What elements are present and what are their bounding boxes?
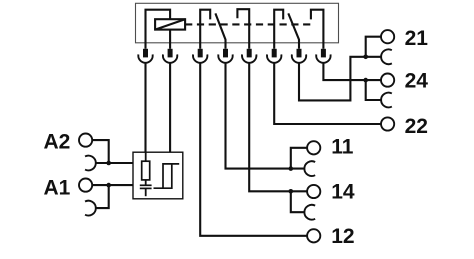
cup 8 (316, 54, 330, 62)
pin 1 (143, 49, 148, 58)
node 21 (363, 55, 368, 60)
input circuit box (133, 152, 183, 199)
contact 1 NO fixed contact (pin 5) (237, 9, 249, 49)
wire pin6 to terminal 22 (274, 63, 381, 124)
pin 2 (168, 49, 173, 58)
terminal 11 circle (307, 141, 320, 154)
capacitor C plate 2 (140, 187, 152, 189)
coil K1 (155, 19, 185, 29)
pin 5 (247, 49, 252, 58)
svg-text:22: 22 (405, 115, 428, 138)
terminal 14 circle (307, 185, 320, 198)
wire node 11 up to terminal 11 (291, 148, 307, 169)
terminal 12 circle (307, 229, 320, 242)
node 24 (363, 78, 368, 83)
terminal A1 circle (79, 179, 92, 192)
coil K1 top wire (146, 10, 171, 49)
resistor R (142, 161, 150, 180)
socket cups (138, 54, 330, 62)
wire pin1 to input box (144, 63, 146, 152)
node 11 (289, 166, 294, 171)
pin 8 (321, 49, 326, 58)
contact 2 NC fixed contact (pin 6) (274, 10, 283, 49)
hysteresis symbol (154, 164, 180, 188)
wire pin3 to terminal 12 (200, 63, 307, 236)
wire A1 circle to box (92, 184, 133, 186)
pin 3 (198, 49, 203, 58)
wire node 21 up to terminal 21 (366, 37, 381, 57)
cup 6 (267, 54, 281, 62)
cup 2 (163, 54, 177, 62)
pins (plug blades) (143, 49, 326, 58)
svg-text:11: 11 (331, 136, 354, 159)
terminal A1 arc (85, 201, 96, 216)
wire pin8 to terminal 24 (323, 63, 381, 80)
contact 1 lever (pin 4) (215, 13, 225, 48)
pin 4 (223, 49, 228, 58)
terminal 24 circle (381, 74, 394, 87)
terminal 21 circle (381, 30, 394, 43)
mechanical link dashed (185, 23, 311, 25)
terminal A2 circle (79, 134, 92, 147)
wire node 24 down to arc 24b (366, 80, 381, 100)
svg-text:A1: A1 (44, 177, 71, 200)
pin 7 (297, 49, 302, 58)
pin 6 (272, 49, 277, 58)
contact 2 NO fixed contact (pin 8) (311, 10, 324, 49)
wire pin7 to node 21 (299, 57, 381, 101)
cup 1 (138, 54, 152, 62)
resistor to capacitor wire (145, 180, 147, 185)
svg-text:21: 21 (405, 27, 429, 50)
wire pin4 to node 11 (226, 63, 305, 169)
terminal 21 arc (381, 49, 392, 64)
cup 5 (242, 54, 256, 62)
contact 2 lever (pin 7) (288, 13, 299, 48)
resistor R top wire (145, 152, 147, 161)
relay block outline (136, 3, 339, 43)
coil K1 bottom wire (169, 30, 171, 49)
terminal 24 arc (381, 93, 392, 108)
wire A1 arc to node (96, 185, 109, 208)
wire A2 arc to box (96, 162, 133, 164)
svg-text:12: 12 (331, 225, 354, 248)
terminal 22 circle (381, 117, 394, 130)
cup 7 (292, 54, 306, 62)
terminal A2 arc (85, 156, 96, 171)
node A1 (106, 183, 111, 188)
wire pin2 to input box (169, 63, 171, 152)
capacitor C plate 1 (140, 184, 152, 186)
cup 4 (218, 54, 232, 62)
wire node 14 down to arc 14b (291, 191, 305, 212)
node 14 (289, 189, 294, 194)
wire pin5 to terminal 14 (249, 63, 307, 191)
terminal 14 arc (304, 205, 315, 220)
coil K1 diagonal (155, 19, 185, 29)
svg-text:A2: A2 (44, 130, 71, 153)
svg-text:14: 14 (331, 180, 355, 203)
wire A2 circle to node (92, 140, 109, 163)
terminal 11 arc (304, 161, 315, 176)
capacitor bottom wire (145, 188, 147, 196)
cup 3 (193, 54, 207, 62)
svg-text:24: 24 (405, 70, 429, 93)
node A2 (106, 161, 111, 166)
contact 1 NC fixed contact (pin 3) (200, 10, 210, 49)
terminal circles and arcs (79, 30, 394, 242)
